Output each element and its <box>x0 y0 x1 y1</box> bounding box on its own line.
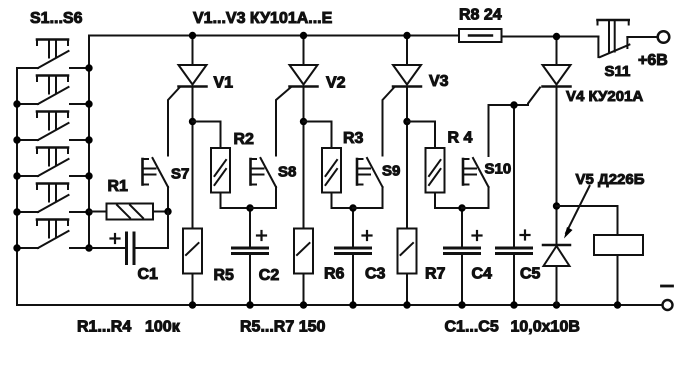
svg-text:100к: 100к <box>145 319 181 336</box>
svg-text:R7: R7 <box>425 266 446 283</box>
svg-text:R5...R7 150: R5...R7 150 <box>240 319 325 336</box>
svg-text:R1: R1 <box>108 178 129 195</box>
svg-text:R1...R4: R1...R4 <box>77 319 131 336</box>
svg-text:R 4: R 4 <box>448 130 473 147</box>
svg-text:C2: C2 <box>259 267 280 284</box>
svg-text:R3: R3 <box>343 130 364 147</box>
svg-text:S8: S8 <box>278 164 296 181</box>
svg-text:R2: R2 <box>234 131 255 148</box>
svg-text:V5 Д226Б: V5 Д226Б <box>576 171 645 188</box>
svg-text:R6: R6 <box>324 266 345 283</box>
svg-text:+6В: +6В <box>638 52 668 69</box>
svg-text:S1...S6: S1...S6 <box>30 10 83 27</box>
svg-text:S7: S7 <box>171 166 189 183</box>
svg-text:V1: V1 <box>214 75 234 92</box>
svg-text:C5: C5 <box>520 266 541 283</box>
svg-text:C4: C4 <box>472 266 493 283</box>
svg-text:V2: V2 <box>326 75 346 92</box>
svg-text:S10: S10 <box>485 161 512 178</box>
svg-text:C1...C5: C1...C5 <box>445 319 499 336</box>
svg-text:V3: V3 <box>429 73 449 90</box>
svg-text:10,0x10В: 10,0x10В <box>511 319 580 336</box>
svg-text:R5: R5 <box>214 267 235 284</box>
svg-text:R8 24: R8 24 <box>459 7 502 24</box>
svg-text:V4 КУ201А: V4 КУ201А <box>566 88 643 105</box>
svg-text:S11: S11 <box>605 63 631 80</box>
svg-text:V1...V3 КУ101А...Е: V1...V3 КУ101А...Е <box>193 10 333 27</box>
svg-text:C1: C1 <box>138 266 159 283</box>
svg-text:C3: C3 <box>365 266 386 283</box>
svg-text:S9: S9 <box>382 163 400 180</box>
